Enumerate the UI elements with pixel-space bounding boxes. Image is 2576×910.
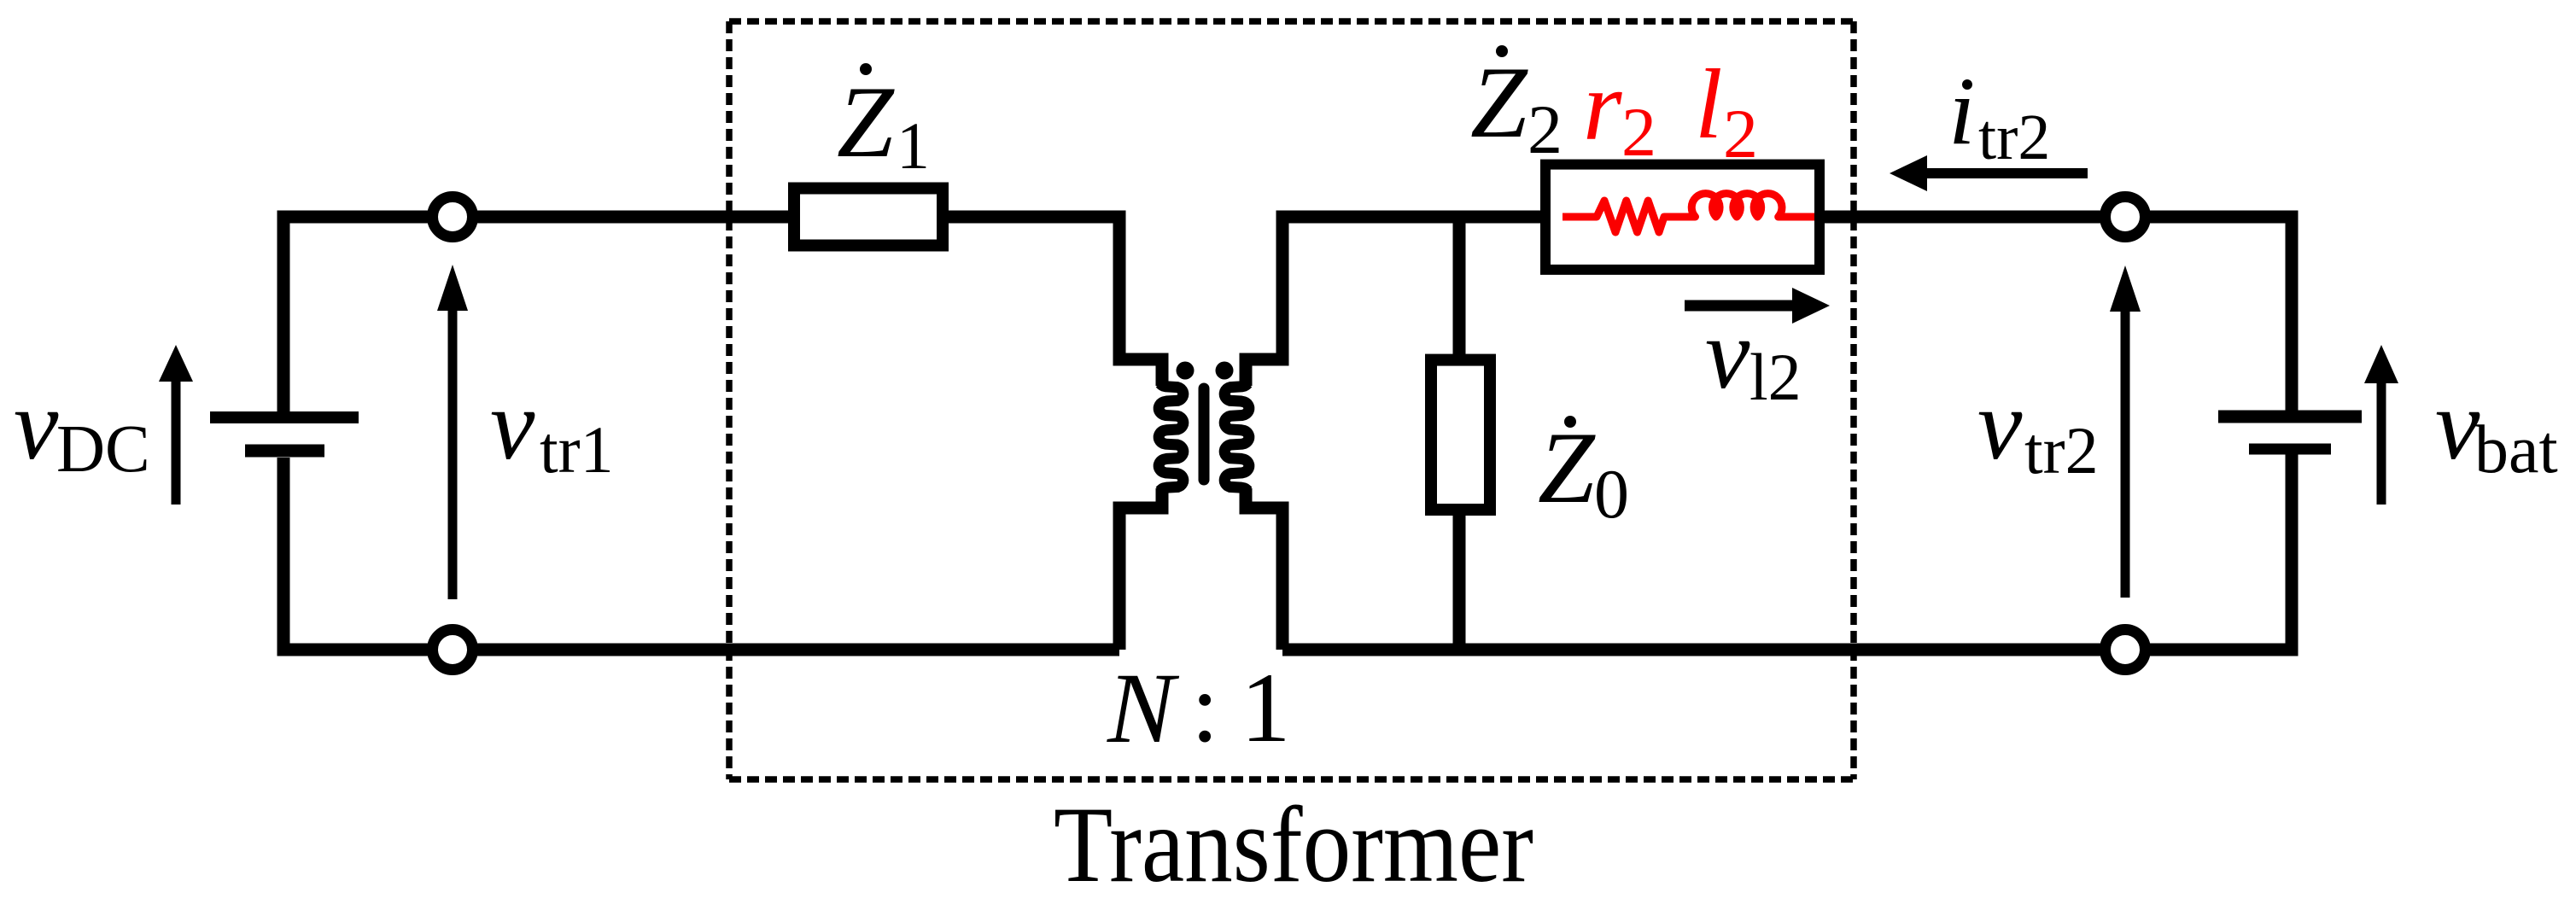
wire: left vertical bottom (source bottom lead) — [283, 458, 1119, 650]
svg-text:1: 1 — [1241, 653, 1291, 763]
arrow vl2 (pointing right) — [1685, 300, 1794, 312]
transformer primary winding — [1159, 383, 1183, 491]
wire: bottom rail right section — [1282, 454, 2292, 650]
transformer dot primary — [1177, 362, 1195, 380]
svg-text:Z: Z — [837, 65, 895, 178]
wire: secondary bottom stub to bottom rail — [1246, 488, 1282, 650]
svg-text:tr2: tr2 — [1978, 102, 2050, 173]
arrow vtr2 — [2121, 310, 2130, 598]
svg-text:tr1: tr1 — [540, 412, 614, 487]
arrow vtr1 — [448, 309, 458, 599]
wire: top left horizontal from left source to Z1 — [283, 217, 788, 411]
svg-text:N: N — [1107, 652, 1180, 764]
wire: Z0 branch vertical bottom — [1453, 516, 1466, 650]
transformer core bar — [1199, 388, 1210, 480]
dashed box bottom edge — [729, 776, 1854, 783]
dashed transformer boundary box — [729, 18, 1854, 25]
svg-text:tr2: tr2 — [2024, 413, 2099, 487]
wire: Z2 to right terminal and right vertical top — [1824, 217, 2292, 411]
terminal node left bottom — [433, 630, 473, 670]
transformer dot secondary — [1216, 362, 1234, 380]
svg-text:2: 2 — [1527, 90, 1563, 168]
wire: Z0 branch vertical top — [1453, 217, 1466, 355]
arrow vDC — [172, 380, 181, 505]
impedance box Z0 — [1431, 360, 1490, 510]
svg-text:l: l — [1695, 50, 1723, 160]
svg-text:v: v — [490, 369, 535, 481]
svg-text:2: 2 — [1621, 93, 1656, 171]
svg-text:Z: Z — [1538, 411, 1596, 524]
svg-text:v: v — [14, 369, 59, 481]
svg-text:v: v — [1705, 298, 1750, 410]
dashed box right edge — [1850, 21, 1857, 779]
dashed box left edge — [726, 21, 733, 779]
arrow itr2 (current, pointing left) — [1925, 168, 2088, 178]
battery VDC long plate — [210, 411, 359, 423]
wire: Z1 to transformer primary with jog — [949, 217, 1162, 386]
terminal node right top — [2106, 197, 2146, 237]
svg-text:DC: DC — [56, 412, 150, 487]
svg-text::: : — [1191, 653, 1219, 763]
svg-text:2: 2 — [1723, 95, 1758, 172]
svg-text:Z: Z — [1470, 45, 1528, 159]
wire: primary bottom stub to bottom rail — [1119, 488, 1162, 650]
impedance box Z2 — [1545, 165, 1820, 270]
wire: secondary top jog to top rail — [1246, 217, 1541, 386]
battery VDC short plate — [245, 445, 324, 458]
svg-text:r: r — [1583, 51, 1622, 161]
resistor box Z1 — [794, 189, 943, 246]
resistor r2 and inductor l2 (red) inside Z2 — [1563, 194, 1814, 232]
battery vbat short plate — [2249, 444, 2331, 455]
svg-text:Transformer: Transformer — [1054, 785, 1533, 905]
terminal node right bottom — [2106, 630, 2146, 670]
svg-text:v: v — [1977, 369, 2023, 481]
svg-text:i: i — [1948, 58, 1975, 165]
svg-text:1: 1 — [897, 108, 930, 183]
battery vbat long plate — [2218, 411, 2362, 423]
svg-text:l2: l2 — [1749, 340, 1802, 414]
transformer secondary winding — [1224, 383, 1249, 491]
svg-text:0: 0 — [1594, 455, 1629, 533]
terminal node left top — [433, 197, 473, 237]
arrow vbat — [2377, 382, 2386, 505]
svg-text:bat: bat — [2474, 412, 2558, 487]
